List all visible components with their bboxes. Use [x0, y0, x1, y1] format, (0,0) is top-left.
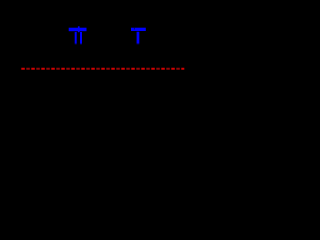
pier P2 stem: [137, 32, 140, 45]
pier P1 right leg: [80, 32, 82, 45]
pier P1 center tick: [78, 26, 80, 32]
pier P2 crossbar: [131, 28, 146, 31]
red dashed boundary line (dim dashes): [26, 68, 184, 70]
pier marker P1 (left, double-stem T structure): [69, 26, 87, 45]
pier marker P2 (right, single-stem T structure): [131, 28, 146, 45]
pier P1 left leg: [75, 32, 77, 45]
pier P2 crossbar notch: [133, 28, 136, 30]
red dashed boundary line (bright dashes): [21, 68, 184, 70]
pier P1 crossbar: [69, 28, 87, 32]
